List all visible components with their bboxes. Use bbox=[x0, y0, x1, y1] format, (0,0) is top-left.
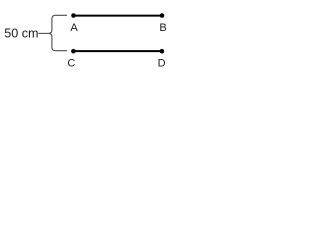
svg-text:B: B bbox=[159, 22, 166, 34]
segment CD bbox=[73, 50, 161, 52]
endpoint dot A bbox=[71, 13, 76, 18]
svg-text:50 cm: 50 cm bbox=[4, 26, 38, 40]
brace bbox=[48, 15, 67, 50]
tick from label to brace bbox=[38, 32, 48, 34]
segment AB bbox=[74, 15, 163, 17]
endpoint dot C bbox=[71, 49, 76, 54]
background bbox=[0, 0, 176, 75]
svg-text:D: D bbox=[158, 58, 166, 70]
svg-text:A: A bbox=[70, 22, 78, 34]
endpoint dot B bbox=[160, 13, 165, 18]
endpoint dot D bbox=[160, 49, 165, 54]
svg-text:C: C bbox=[67, 58, 75, 70]
